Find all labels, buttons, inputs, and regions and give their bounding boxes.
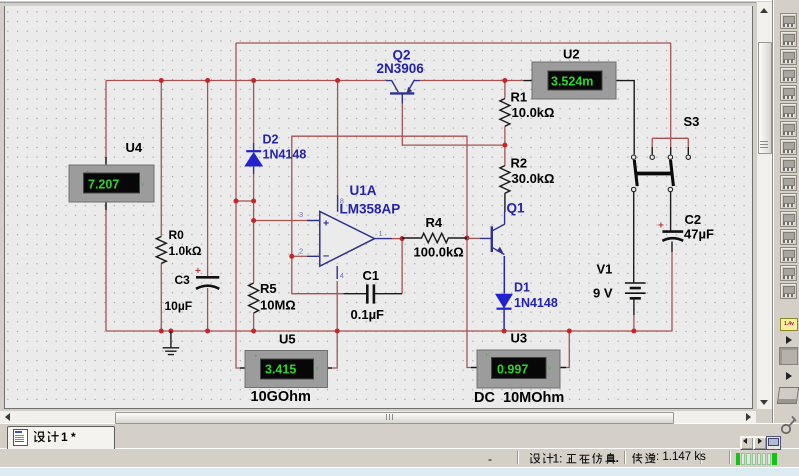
wire: +9V rail left section from U4 branch to Q2 emitter lead [106,80,386,82]
svg-text:V1: V1 [597,262,613,277]
svg-text:+: + [658,221,664,232]
wire: op-amp output to R4 left node [392,238,402,240]
svg-text:+: + [323,218,329,230]
svg-text:3.524m: 3.524m [551,75,593,89]
wire: vertical from top rail down to U5 node [235,43,237,201]
node: junction Q2 base wire on R1/R2 divider [502,143,507,148]
wire: op-amp pin8 supply from +9V rail [337,81,339,196]
svg-text:R4: R4 [426,215,443,230]
svg-text:0.1µF: 0.1µF [351,307,385,322]
svg-text:+: + [86,170,90,176]
ground [163,331,180,355]
svg-text:U1A: U1A [350,183,377,198]
node: junction pin8 branch on +9V rail [335,78,340,83]
wire: - input node down to C1 left [292,256,344,293]
wire: Q1 collector lead up to R2 [504,212,506,225]
svg-text:U2: U2 [563,47,580,62]
wire: battery V1 bottom lead to ground rail [633,299,635,332]
wire: C2 top lead from switch pin [670,192,672,231]
wire: C3 branch vertical [207,81,209,332]
battery V1 9V [593,262,646,301]
wire: U5 branch from node down and right to U5 left terminal [236,201,240,368]
svg-text:30.0kΩ: 30.0kΩ [512,171,555,186]
node: junction R0 bottom on ground rail [159,329,164,334]
svg-text:3: 3 [299,210,303,219]
svg-text:R2: R2 [511,156,528,171]
node: junction U5 branch at jog [234,199,239,204]
right toolbar strip [772,0,799,467]
status bar [0,448,799,468]
svg-text:1.0kΩ: 1.0kΩ [169,244,202,258]
svg-text:C2: C2 [685,212,702,227]
node: junction D2 top on +9V rail [251,78,256,83]
svg-text:10µF: 10µF [165,299,193,313]
svg-text:+: + [604,76,608,82]
capacitor C1 [344,268,403,322]
svg-text:1 *: 1 * [61,430,76,444]
wire: switch feed from top rail down to S3 [670,43,672,155]
wire: D2/R5 branch vertical [253,81,255,332]
wire: Q1 emitter via D1 to ground rail (blue net) [503,256,505,331]
diode D2 1N4148 [245,133,306,175]
svg-text:4: 4 [340,271,344,280]
wire: R0 branch vertical [160,81,162,332]
resistor R1 [500,90,555,127]
node: junction pin4/U5-right on ground rail [335,329,340,334]
resistor R2 [500,156,555,194]
svg-text:7.207: 7.207 [88,178,119,192]
wire: C2 bottom lead down to ground rail corner [671,242,673,332]
node: junction D1 cathode on ground rail [502,329,507,334]
wire: +9V rail right section from Q2 collector lead to U2 [420,80,524,82]
wire: U2 right terminal over and down to switch pin [624,81,634,155]
multimeter U2 [524,47,625,100]
resistor R0 [156,228,202,263]
wire: op-amp pin3 (+) input wire [254,220,307,222]
wire: top rail from node above D2 branch to switch feed [236,42,671,44]
tab bar [0,423,799,449]
svg-text:1: 1 [379,229,383,238]
svg-text:Q1: Q1 [507,201,526,216]
op-amp U1A LM358AP [299,183,400,280]
svg-text:R5: R5 [260,281,277,296]
svg-text:DC 10MOhm: DC 10MOhm [474,390,564,406]
wire: R2 leads [504,145,506,212]
resistor R4 [402,215,467,260]
svg-text:R1: R1 [511,90,528,105]
wire: Q1 base red portion [467,237,480,239]
wire: ground rail along the bottom [106,330,672,332]
svg-text:C1: C1 [363,268,380,283]
svg-text:U3: U3 [511,331,528,346]
multimeter U3 (DC voltmeter 10MOhm) [471,331,566,407]
wire: battery V1 top lead from switch pin [633,192,635,283]
svg-text:U5: U5 [279,332,296,347]
node: junction R5 bottom on ground rail [251,329,256,334]
svg-text:1N4148: 1N4148 [263,148,307,162]
wire: U5 right terminal up to ground rail [332,331,337,368]
svg-text:v: v [141,182,144,188]
svg-text:9 V: 9 V [593,286,613,301]
wire: short jog connecting U5 node to D2/R5 branch [236,200,254,202]
wire: left branch through voltmeter U4 down to ground rail [105,81,107,332]
wire: Q2 base down then right to R1/R2 junction [402,103,505,145]
node: junction op-amp output / C1 branch [400,236,405,241]
node: junction C3 bottom on ground rail [205,329,210,334]
node: junction R0 top on +9V rail [159,78,164,83]
svg-text:2N3906: 2N3906 [377,61,425,76]
capacitor C3 (polarized) [165,266,220,313]
svg-text:D1: D1 [514,281,530,295]
node: junction jog to D2 branch [251,199,256,204]
schematic canvas with dot grid [4,5,753,409]
transistor Q2 2N3906 (PNP, rotated) [377,48,425,104]
switch S3 [632,114,700,192]
svg-text:10GOhm: 10GOhm [251,389,311,405]
node: junction R1 top on +9V rail [502,78,507,83]
node: junction ground symbol on ground rail [168,329,173,334]
node: junction battery V1 on ground rail [631,329,636,334]
svg-text:U4: U4 [126,140,143,155]
wire: R1 branch (rail to zigzag, zigzag to junction) [504,81,506,146]
svg-text:+: + [254,354,258,360]
transistor Q1 (NPN) [480,201,525,255]
wire: switch top pins tie bar with stubs [652,138,688,154]
svg-text:LM358AP: LM358AP [340,202,401,217]
svg-text:10MΩ: 10MΩ [260,298,296,313]
svg-text:+: + [195,266,201,277]
bottom strip [0,467,799,476]
node: junction C3 top on +9V rail [205,78,210,83]
vertical scrollbar [756,2,772,409]
wire: output node down and left to C1 right plate [401,239,403,294]
svg-text:0.997: 0.997 [497,363,528,377]
multimeter U4 [69,140,154,210]
node: junction R4 right / feedback / Q1 base [464,236,469,241]
node: junction - input corner [289,254,294,259]
svg-text:1N4148: 1N4148 [514,296,558,310]
svg-text:+: + [485,353,489,359]
svg-text:v: v [548,366,551,372]
svg-text:–: – [323,250,329,262]
wire: op-amp pin2 (-) input wire [292,255,307,257]
wire: feedback path from - input up and over to R4 right node [292,136,467,256]
resistor R5 [249,281,296,313]
node: junction U3 right branch on ground rail [567,329,572,334]
svg-text:S3: S3 [684,114,700,129]
horizontal scrollbar [0,410,756,424]
svg-text:R0: R0 [169,228,185,242]
svg-text:2: 2 [299,247,303,256]
diode D1 1N4148 [496,281,558,311]
multimeter U5 (ohmmeter 10GOhm) [240,332,332,406]
svg-text:3.415: 3.415 [265,363,296,377]
wire: op-amp pin4 down to ground rail [336,281,338,331]
svg-text:D2: D2 [263,133,279,147]
svg-text:C3: C3 [175,273,191,287]
capacitor C2 (polarized) [658,212,714,242]
svg-text:v: v [316,366,319,372]
node: junction + input tap on D2/R5 branch [251,218,256,223]
wire: U3 right terminal up to ground rail [566,331,569,368]
svg-text:10.0kΩ: 10.0kΩ [512,105,555,120]
top toolbar remnant strip [0,0,799,6]
wire: feedback vertical continues down to U3 left terminal [467,238,471,368]
svg-text:100.0kΩ: 100.0kΩ [414,245,464,260]
svg-text:47µF: 47µF [684,227,714,242]
